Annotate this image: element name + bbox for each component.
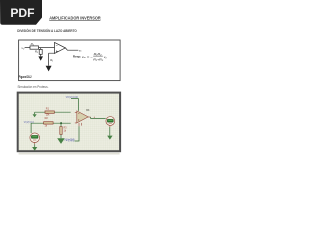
svg-text:VO(V)=0.00: VO(V)=0.00 (66, 97, 79, 99)
svg-text:Simulación en Proteus.: Simulación en Proteus. (18, 85, 49, 89)
wire V1 to ground (34, 144, 36, 148)
wire output (91, 117, 106, 118)
op-amp U1 (77, 111, 88, 123)
figure box (19, 40, 121, 81)
wire to GND label (75, 126, 80, 141)
resistor R1 (45, 111, 54, 113)
voltmeter M1 bottom pin stub (109, 125, 111, 127)
wire meter to ground (109, 127, 111, 136)
svg-text:R₁+R₂: R₁+R₂ (93, 58, 104, 62)
ground (under voltmeter M1) (107, 136, 112, 140)
resistor RA (30, 46, 39, 49)
op-amp power pins (79, 123, 82, 126)
svg-text:R₁R₂: R₁R₂ (94, 52, 103, 56)
wire jog over op-amp (71, 99, 78, 111)
probe (93, 117, 95, 119)
ground (figure, non-inverting input) (46, 66, 52, 72)
PDF badge (0, 0, 42, 25)
op-amp output pin stub (88, 116, 90, 118)
Proteus sim frame (18, 93, 120, 152)
source V1 bottom pin stub (34, 142, 36, 144)
resistor R2 (44, 122, 54, 124)
voltmeter M1 (106, 117, 115, 126)
node A junction (40, 48, 42, 50)
ground (under R3) (57, 138, 65, 144)
ground (left end of W1) (34, 112, 36, 114)
svg-text:−: − (56, 44, 58, 48)
svg-text:V-(V)=GND: V-(V)=GND (64, 140, 75, 142)
wire W1 (35, 111, 71, 113)
ground (under source V1) (32, 147, 37, 151)
resistor R3 (60, 123, 62, 138)
svg-text:R₁: R₁ (31, 42, 34, 46)
svg-text:+: + (56, 50, 58, 54)
junction node (60, 122, 62, 124)
op-amp U1 input pin stubs (75, 112, 77, 123)
svg-text:Resp:: Resp: (73, 55, 81, 59)
wire vi to RA (25, 47, 30, 49)
wire RA to op-amp (39, 47, 55, 49)
wire output (65, 48, 78, 50)
svg-text:VI(V)=0.0: VI(V)=0.0 (24, 122, 35, 124)
resistor R1 (39, 49, 42, 54)
svg-text:vₒ = −: vₒ = − (82, 55, 94, 59)
wire plus input (49, 53, 55, 66)
wire W2 (31, 123, 71, 133)
op-amp U1 (55, 42, 66, 53)
source V1 (30, 133, 40, 143)
svg-text:PDF: PDF (10, 6, 34, 20)
ground (figure, under R1) (40, 54, 42, 56)
svg-text:Figura D8.2: Figura D8.2 (19, 75, 32, 79)
svg-text:AMPLIFICADOR INVERSOR: AMPLIFICADOR INVERSOR (49, 16, 100, 21)
